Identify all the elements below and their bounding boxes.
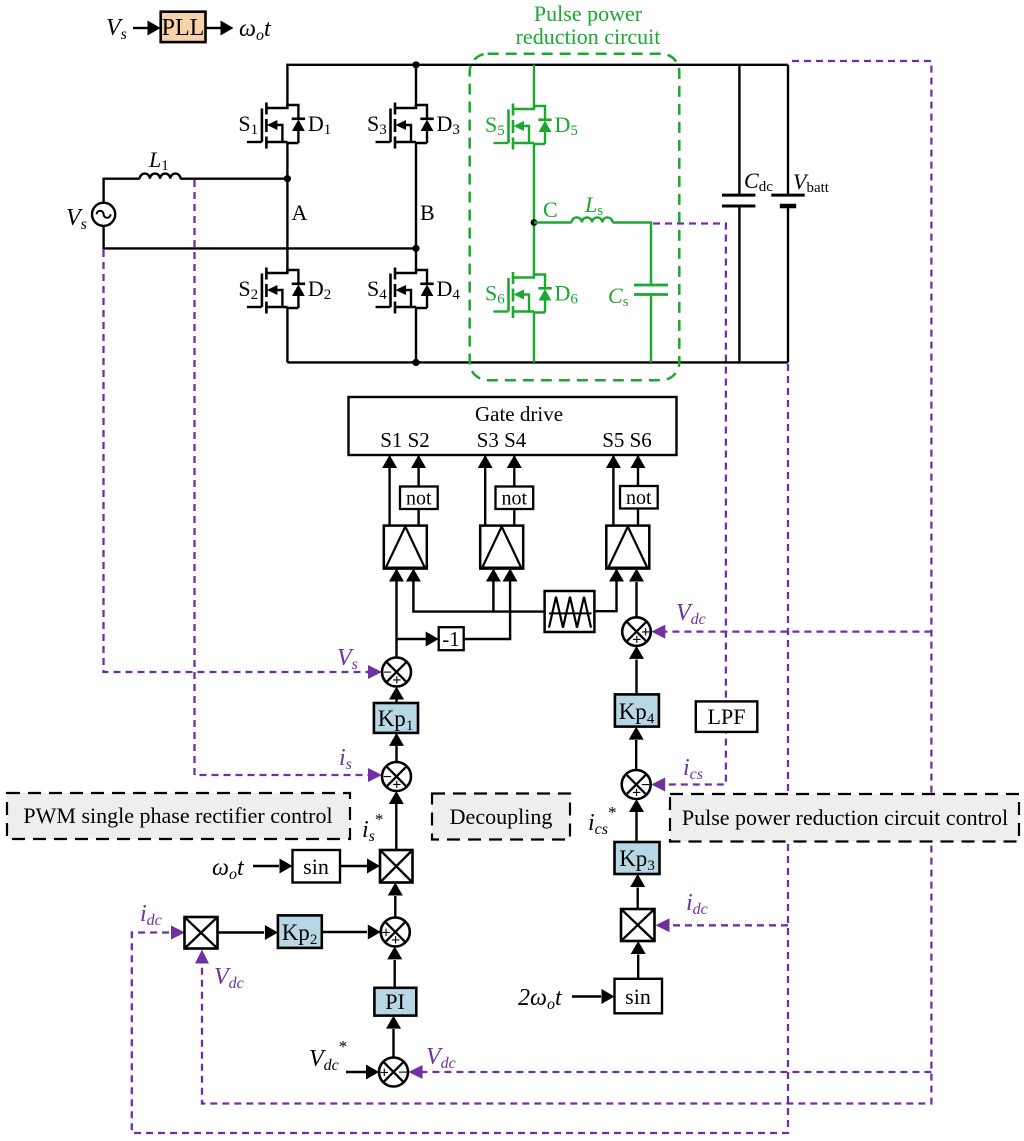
svg-text:A: A — [292, 200, 308, 225]
block not3 — [620, 486, 658, 509]
wire Vs summer to comparator 1 with branch to -1 — [395, 569, 397, 658]
wire Vs to PLL — [133, 27, 148, 29]
label box PWM single phase rectifier control — [7, 793, 350, 839]
wire node C to Ls — [534, 221, 572, 223]
node C — [531, 219, 538, 226]
svg-text:not: not — [626, 487, 652, 509]
wire S3 gate signal — [484, 455, 486, 526]
summer is — [382, 762, 411, 791]
summer Vdc* — [379, 1058, 408, 1087]
svg-text:LPF: LPF — [708, 704, 746, 729]
wire S6 gate signal through not3 — [637, 455, 639, 526]
svg-text:PWM single phase rectifier con: PWM single phase rectifier control — [23, 803, 332, 828]
transistor S5 with diode D5 — [512, 104, 515, 150]
wire Kp2 to amplitude summer — [322, 931, 367, 933]
block not1 — [400, 487, 438, 510]
capacitor Cdc — [738, 65, 740, 363]
block Kp3 — [615, 842, 660, 874]
junction dot bottom bus leg B — [412, 359, 419, 366]
svg-text:+: + — [632, 784, 641, 801]
svg-text:B: B — [420, 200, 435, 225]
summer ics — [622, 770, 651, 799]
svg-text:reduction circuit: reduction circuit — [516, 24, 661, 49]
wire green leg vertical — [533, 65, 535, 363]
block LPF — [696, 701, 758, 732]
block triangle carrier generator — [545, 591, 595, 632]
wire Vdc branch to decoupling summer — [665, 630, 931, 632]
block PLL — [161, 12, 206, 42]
wire idc sense (from battery node around bottom to multiplier) — [132, 364, 788, 1133]
svg-text:+: + — [392, 672, 401, 689]
transistor S1 with diode D1 — [265, 103, 268, 149]
wire idc branch to pulse-control multiplier — [668, 924, 788, 926]
inductor Ls — [572, 217, 613, 222]
svg-text:+: + — [391, 932, 400, 949]
svg-text:not: not — [502, 488, 528, 510]
wire multiplier to Kp3 — [637, 888, 639, 910]
svg-text:S1 S2: S1 S2 — [380, 428, 430, 452]
wire ics sense (from Ls-Cs node through LPF to ics summing junction) — [653, 224, 726, 785]
svg-text:−: − — [641, 777, 650, 794]
transistor S4 with diode D4 — [394, 268, 397, 314]
svg-text:PLL: PLL — [162, 15, 205, 41]
transistor S6 with diode D6 — [512, 272, 515, 318]
node A — [284, 175, 291, 182]
svg-text:sin: sin — [303, 854, 329, 879]
battery Vbatt — [787, 65, 789, 363]
wire sin1 to multiplier — [340, 865, 367, 867]
block Kp4 — [615, 694, 659, 726]
block Kp1 — [374, 703, 418, 733]
svg-text:PI: PI — [385, 989, 405, 1014]
multiplier idc x Vdc — [185, 917, 218, 949]
label box Decoupling — [432, 794, 570, 840]
block -1 — [439, 627, 464, 650]
transistor S3 with diode D3 — [394, 103, 397, 149]
svg-text:−: − — [383, 664, 392, 681]
wire S1 gate signal — [388, 455, 390, 526]
label box Pulse power reduction circuit control — [670, 794, 1019, 842]
svg-text:sin: sin — [625, 984, 651, 1009]
svg-text:Pulse power: Pulse power — [534, 1, 643, 26]
svg-text:ωot: ωot — [212, 855, 245, 883]
summer amplitude (Kp2 + PI) — [381, 918, 410, 947]
wire carrier to comparators 1 and 2 — [413, 582, 544, 612]
wire is sense (from L1 node to is summing junction) — [195, 180, 369, 775]
block Gate drive — [349, 397, 677, 455]
transistor S2 with diode D2 — [265, 268, 268, 314]
wire leg B vertical — [415, 65, 417, 363]
wire Vdc branch to Vdc* summer — [422, 1071, 931, 1073]
wire S2 gate signal through not1 — [417, 455, 419, 526]
wire Vdc decoupling summer to comparator 3 — [635, 582, 637, 617]
wire bottom dc bus — [287, 361, 788, 363]
multiplier sin2w x idc — [621, 909, 655, 941]
junction dot top bus leg B — [412, 61, 419, 68]
svg-text:S3 S4: S3 S4 — [477, 428, 527, 452]
svg-text:not: not — [406, 488, 432, 510]
wire multiplier to is summer, label is* — [395, 804, 397, 850]
wire multiplier to Kp2 — [218, 931, 265, 933]
wire Vdc* summer to PI — [392, 1029, 394, 1058]
wire S5 gate signal — [612, 455, 614, 526]
svg-text:C: C — [543, 197, 558, 222]
multiplier sin x amplitude — [380, 850, 413, 883]
comparator PWM S1S2 — [384, 526, 427, 569]
svg-text:−: − — [398, 1064, 407, 1081]
wire Vdc sense (from dc bus down right side) — [202, 61, 931, 1104]
block sin2 — [615, 979, 663, 1014]
svg-text:+: + — [392, 776, 401, 793]
svg-text:+: + — [380, 1064, 389, 1081]
wire top dc bus — [287, 64, 788, 66]
green dashed boundary box — [470, 54, 680, 381]
comparator PWM S5S6 — [606, 526, 649, 569]
wire Kp4 to decoupling summer — [635, 660, 637, 695]
block PI — [374, 988, 416, 1016]
svg-text:−: − — [383, 769, 392, 786]
svg-text:2ωot: 2ωot — [518, 985, 563, 1013]
source Vs AC — [92, 203, 115, 226]
svg-text:Gate drive: Gate drive — [475, 402, 563, 426]
capacitor Cs — [634, 285, 668, 295]
comparator PWM S3S4 — [480, 526, 523, 569]
wire amplitude summer to multiplier — [394, 896, 396, 918]
wire Kp3 to ics summer, label ics* — [635, 812, 637, 842]
wire is summer to Kp1 — [395, 746, 397, 762]
svg-text:+: + — [632, 631, 641, 648]
wire PI to amplitude summer — [394, 960, 396, 988]
wire source top to node A — [104, 179, 288, 203]
svg-text:+: + — [382, 924, 391, 941]
wire Kp1 to Vs summer — [395, 697, 397, 703]
wire -1 to comparator 2 — [464, 569, 510, 640]
svg-text:ωot: ωot — [239, 16, 272, 44]
summer Vs (feedforward) — [382, 658, 411, 687]
wire S4 gate signal through not2 — [513, 455, 515, 526]
wire PLL to wot — [206, 27, 222, 29]
wire Vs sense (from source bottom to Vs summing junction) — [104, 250, 369, 672]
wire Ls to Cs — [613, 223, 652, 286]
svg-text:Decoupling: Decoupling — [450, 804, 553, 829]
svg-text:+: + — [641, 624, 650, 641]
wire sin2 to multiplier — [637, 955, 639, 979]
svg-text:-1: -1 — [442, 627, 460, 651]
wire ics summer to Kp4 — [635, 740, 637, 770]
wire source bottom to node B — [104, 226, 416, 249]
inductor L1 — [140, 174, 181, 179]
summer decoupling Vdc — [622, 617, 651, 646]
wire leg A vertical — [286, 64, 288, 363]
svg-text:Pulse power reduction circuit: Pulse power reduction circuit control — [682, 805, 1008, 830]
node B — [412, 245, 419, 252]
wire carrier to comparator 3 — [594, 569, 616, 612]
svg-text:S5 S6: S5 S6 — [602, 428, 652, 452]
block not2 — [496, 487, 534, 510]
block sin1 — [293, 850, 341, 883]
block Kp2 — [278, 915, 322, 948]
